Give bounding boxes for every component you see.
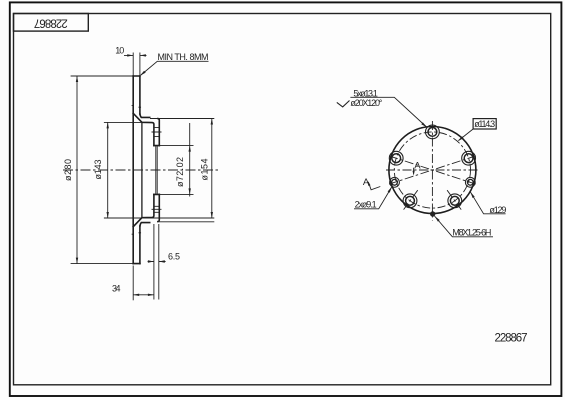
svg-text:34: 34 — [112, 283, 121, 293]
svg-text:10: 10 — [115, 46, 124, 56]
svg-text:ø129: ø129 — [489, 205, 506, 215]
svg-text:6.5: 6.5 — [168, 251, 180, 261]
svg-text:A: A — [414, 160, 421, 171]
svg-text:ø72.02: ø72.02 — [175, 157, 185, 187]
svg-text:M8X1.25-6H: M8X1.25-6H — [452, 228, 491, 238]
svg-text:A: A — [363, 177, 370, 188]
svg-text:ø114.3: ø114.3 — [474, 119, 495, 129]
svg-text:ø154: ø154 — [199, 159, 209, 181]
svg-text:ø280: ø280 — [63, 159, 73, 181]
svg-text:MIN TH. 8MM: MIN TH. 8MM — [158, 52, 209, 62]
svg-text:5xø13.1: 5xø13.1 — [353, 89, 378, 99]
svg-text:2xø9.1: 2xø9.1 — [355, 199, 377, 209]
svg-text:228867: 228867 — [34, 17, 68, 29]
svg-text:ø143: ø143 — [93, 160, 103, 180]
svg-text:228867: 228867 — [495, 333, 528, 345]
svg-text:ø20X120°: ø20X120° — [350, 98, 382, 108]
